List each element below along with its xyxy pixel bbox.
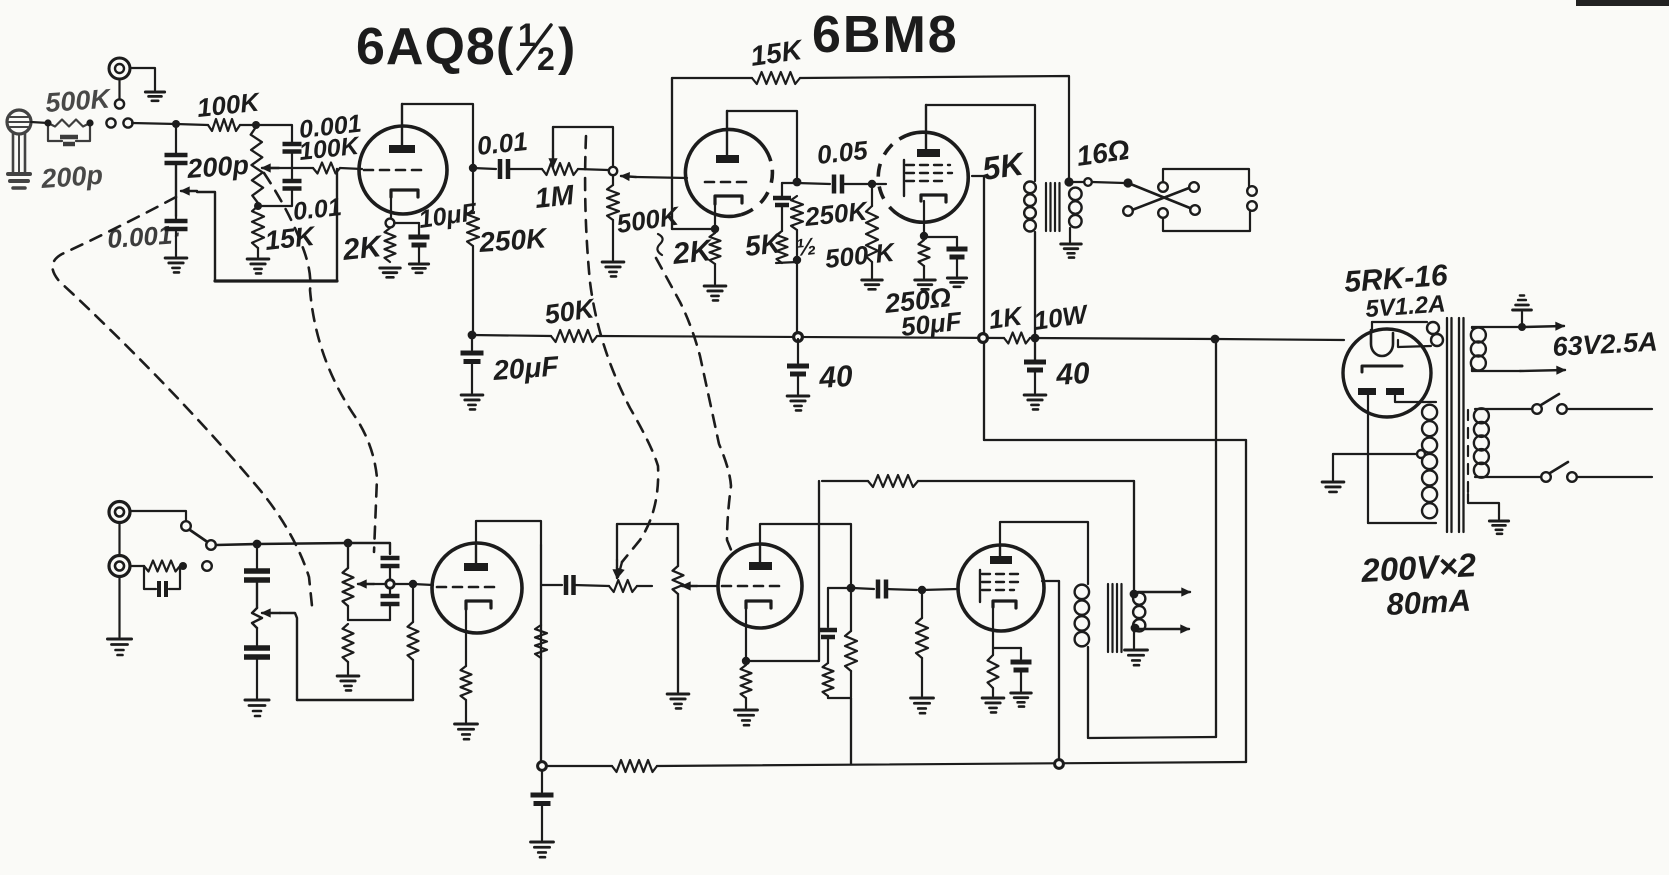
svg-text:15K: 15K (263, 221, 318, 256)
S2 jumper top (1163, 169, 1249, 186)
wiper arrow VR2 (262, 164, 279, 172)
RCA jack J3 (109, 502, 130, 523)
label 200p input (39, 160, 103, 194)
V5 bar (1362, 366, 1402, 372)
wire cap2a to diamond (389, 566, 391, 579)
label 500K pentode (823, 237, 897, 274)
wire B+ rail b (597, 336, 1004, 338)
svg-text:40: 40 (817, 360, 854, 395)
wire CT to ground (1333, 454, 1417, 480)
wire cap to 1M lower (574, 585, 609, 586)
svg-text:5K: 5K (743, 227, 784, 262)
wire 100K lower (412, 584, 414, 700)
PT core (1447, 318, 1464, 532)
wire grid V6 (413, 584, 433, 585)
label 5K OPT (980, 145, 1028, 187)
switch contact S1a (106, 118, 115, 127)
wire 250K to B+ rail (796, 230, 798, 333)
wire plate left down (1368, 395, 1436, 523)
ground 40uF-2 (1024, 395, 1046, 409)
B+ donut screen (979, 334, 988, 343)
V5 plate left (1358, 388, 1376, 395)
wire 5K branch top (782, 183, 797, 196)
label 0.05 (815, 135, 869, 170)
resistor 250K lower (535, 625, 547, 658)
ground CT (1322, 482, 1344, 492)
wire J1 to ground (130, 68, 155, 90)
wire 40-1 gnd (797, 374, 799, 394)
label 50uF (899, 306, 963, 342)
svg-text:2K: 2K (340, 230, 385, 267)
wire J1 to contact (118, 79, 120, 99)
wire cross link (348, 619, 390, 621)
V8 plate bracket (1000, 522, 1088, 584)
node D (254, 202, 262, 210)
switch contact S1c (115, 99, 124, 108)
resistor 100K (208, 119, 240, 131)
potentiometer 500K lower (673, 524, 684, 692)
label 15K (263, 221, 318, 256)
wire 6.3V bottom arrow (1472, 366, 1565, 374)
V3 grid3 (906, 180, 942, 182)
S2 contact D1 (1247, 186, 1257, 196)
svg-text:0.05: 0.05 (815, 135, 869, 170)
svg-text:1K: 1K (987, 300, 1026, 335)
wire 500K-3 (921, 590, 923, 696)
wire J3-J4 sleeve (118, 523, 120, 555)
wire OPT primary to rail (1034, 232, 1036, 360)
V7 plate bracket (760, 524, 851, 585)
OPT T2 secondary (1133, 593, 1145, 632)
label 250ohm (882, 282, 952, 319)
V8 grid3 (982, 589, 1014, 591)
resistor 500K input (parallel) (48, 120, 90, 127)
svg-text:200p: 200p (39, 160, 103, 194)
label 250K V2 (802, 195, 870, 232)
wire to V7 grid (697, 585, 717, 587)
PT primary winding (1474, 408, 1489, 477)
wire 500K to ground (612, 220, 614, 260)
PT HV winding (1422, 405, 1437, 519)
V8 screen wire (1042, 581, 1059, 762)
resistor 1K 10W (1004, 333, 1030, 344)
ground 50uF lower (1011, 693, 1031, 707)
wire wiper VR4 to grid (374, 583, 409, 585)
resistor 250ohm (919, 240, 930, 266)
OPT T1 primary (1024, 182, 1036, 232)
wiper arrow VR1 (181, 187, 197, 195)
V5 filament (1371, 330, 1393, 356)
wire 2K to ground (714, 264, 716, 284)
diamond junction lower (386, 580, 394, 588)
ground 20uF (461, 395, 483, 409)
6.3V junction (1518, 323, 1526, 331)
B+ donut V2 (794, 333, 803, 342)
switch S4 contact c (202, 561, 212, 571)
label 0.001 left (106, 219, 182, 254)
triode V2 6BM8 envelope (685, 129, 772, 216)
wire cathode to 50uF (928, 237, 957, 246)
wire wiper to 100K-2 (265, 167, 313, 169)
node A1 (44, 119, 51, 126)
label 10W (1032, 298, 1092, 335)
potentiometer 1M (542, 163, 578, 175)
wire 15K feedback left (672, 77, 752, 79)
ground chain1 (245, 700, 269, 716)
gang line 2 (264, 173, 377, 552)
resistor input lower (144, 561, 180, 572)
gang line 4 (656, 258, 734, 557)
capacitor 0.05 (834, 175, 842, 194)
wire node I right (348, 543, 390, 554)
RCA jack J4 (109, 556, 130, 577)
wire 10uF to ground (418, 245, 420, 262)
capacitor 20uF (461, 335, 484, 362)
B+ rail node V1 (468, 331, 477, 340)
capacitor 20uF lower (531, 770, 554, 804)
wire junction to 0.05 lower (853, 588, 874, 589)
V6 cathode (466, 601, 491, 666)
ground 15K (247, 259, 269, 273)
ground 250ohm (915, 280, 935, 289)
triode V1 6AQ8 envelope (359, 126, 447, 214)
wire V6 cath gnd (465, 700, 467, 722)
V8 grid2 (982, 581, 1022, 583)
junction V2 plate (793, 178, 802, 187)
label 500K V2 (615, 200, 683, 239)
wire J4 to 2M (130, 565, 144, 567)
label 200p tone (185, 150, 249, 184)
node G (868, 180, 876, 188)
capacitor lower-2b (381, 589, 400, 604)
wire plug to node (31, 122, 48, 123)
pentode V8 envelope (958, 545, 1044, 631)
wire secondary to ground (1069, 228, 1071, 242)
node lower screen (1055, 760, 1064, 769)
switch contact S1b (123, 118, 132, 127)
resistor 250ohm lower (988, 655, 999, 688)
resistor 50K lower (612, 760, 657, 772)
wire J4 to ground (118, 577, 120, 637)
wire sec to terminal (1073, 181, 1083, 183)
wire 250K V7 (850, 588, 852, 697)
S2 jumper bottom (1163, 211, 1250, 231)
wire 250K to B+ (472, 168, 474, 334)
V3 cathode (921, 195, 946, 233)
wire node C right (256, 125, 292, 142)
1M lower wiper (613, 524, 621, 578)
ground 2K V7 (735, 710, 758, 725)
label 5RK-16 (1343, 259, 1449, 299)
V7 cathode (746, 601, 771, 657)
rectifier V5 5RK-16 envelope (1343, 329, 1431, 417)
switch S2 common dot (1123, 178, 1132, 187)
V3 plate (917, 105, 940, 157)
potentiometer VR3 (252, 580, 262, 628)
wire 250K V7 to B+ (850, 698, 852, 764)
ground 40uF-1 (787, 396, 809, 410)
svg-text:2: 2 (537, 41, 555, 77)
scan artifact bar (1576, 0, 1669, 6)
title 6BM8 (812, 6, 959, 64)
V2 plate (716, 111, 739, 163)
ground V6 cathode (455, 724, 478, 739)
wire V6 plate chain (540, 545, 542, 766)
PT 5V winding (1372, 322, 1443, 347)
S2 contact C1 (1158, 182, 1168, 192)
label 1M (533, 179, 576, 214)
cap loop lower (144, 566, 180, 597)
label 2K V2 (670, 234, 715, 271)
1M wiper arrow (549, 127, 557, 167)
wire T2 primary bottom (1087, 647, 1089, 738)
wire 15K to ground (257, 248, 259, 257)
potentiometer 1M lower (609, 580, 637, 592)
T2 secondary top node (1130, 590, 1139, 599)
node B (172, 120, 180, 128)
wire 0.01 to 1M (510, 168, 542, 170)
OPT T1 core (1046, 183, 1060, 231)
ground 500K-3 (911, 698, 934, 713)
capacitor 200p input loop (48, 123, 90, 144)
V7 cathode node (742, 657, 750, 665)
wire 5K branch lower (828, 588, 849, 627)
wire B+ rail a (472, 335, 551, 336)
ground 20uF lower (531, 842, 554, 857)
node H (253, 540, 262, 549)
OPT T1 secondary (1069, 188, 1082, 228)
ground OPT T2 (1125, 650, 1148, 665)
junction V7 plate (847, 584, 856, 593)
resistor 500K grid V2 (607, 175, 619, 220)
label 500K input (44, 83, 113, 118)
wire NFB vertical (671, 78, 673, 229)
wire to ground (175, 230, 177, 256)
wire chain1 gnd (256, 657, 258, 698)
wire 2K V7 gnd (745, 698, 747, 708)
wire to node B (132, 123, 176, 124)
wire AC top (1480, 408, 1532, 410)
V2 cathode node (711, 225, 719, 233)
wire 50uF-2 gnd (1020, 670, 1022, 691)
S2 contact C2 (1158, 208, 1168, 218)
OPT T2 primary (1075, 585, 1089, 647)
wire 500K-p (871, 184, 873, 278)
label 0.001 (298, 110, 363, 144)
capacitor lower-1a (244, 544, 270, 580)
B+ node lower (538, 762, 547, 771)
ground 2K V2 (704, 286, 726, 300)
wire right inner drop (1215, 339, 1217, 737)
label 20uF (491, 350, 560, 386)
wire 20uF gnd (471, 361, 473, 393)
wiper arrow 500K lower (682, 582, 697, 590)
wire 100K-2 to grid (340, 168, 362, 169)
label 10uF (417, 198, 479, 234)
B+ node PSU (1211, 335, 1220, 344)
svg-text:0.01: 0.01 (475, 126, 528, 161)
S2 contact D2 (1247, 201, 1257, 211)
svg-text:500K: 500K (44, 83, 113, 118)
wire 15K feedback right (800, 76, 1069, 178)
PT shield (1468, 410, 1499, 519)
wire lower rail b (657, 762, 1246, 766)
wire inner bottom (1089, 737, 1216, 738)
V6 grid (437, 586, 500, 589)
node C (252, 121, 260, 129)
resistor 500K-3 (916, 618, 928, 658)
wire 20uF-2 gnd (541, 803, 543, 840)
label 50K (543, 293, 599, 330)
svg-text:1M: 1M (533, 179, 576, 214)
label 100K (195, 86, 262, 123)
wire plate right (1395, 395, 1436, 402)
resistor V6 cathode (461, 666, 472, 700)
switch S3a (1532, 394, 1567, 414)
pentode V3 envelope (878, 132, 968, 222)
V8 grid rail (979, 570, 981, 602)
node F (793, 256, 801, 264)
wire 250ohm gnd (923, 266, 925, 278)
label 40uF-2 (1054, 357, 1091, 392)
capacitor 0.01 coupling V1 (500, 159, 508, 179)
capacitor 10uF (409, 237, 430, 245)
S2 contact B1 (1123, 206, 1133, 216)
potentiometer VR2 15K-tone (251, 127, 263, 203)
wire plate junction to 0.05 (797, 183, 830, 184)
V8 grid1 (982, 573, 1020, 575)
V6 plate (464, 543, 488, 571)
capacitor coupling lower (566, 575, 574, 595)
OPT T2 core (1108, 584, 1122, 652)
node E plate (469, 164, 477, 172)
wire AC bottom out (1577, 476, 1652, 478)
terminal 16ohm a (1084, 178, 1092, 186)
label 5K V2 (743, 227, 784, 262)
wire B+ rail c (1030, 338, 1216, 339)
svg-text:0.001·: 0.001· (106, 219, 182, 254)
node J4a (179, 562, 187, 570)
wire 0.05 lower to grid node (886, 589, 917, 590)
capacitor 0.001 lower-left (165, 216, 188, 229)
gang line 3 (585, 136, 658, 577)
wire 50uF gnd (956, 257, 958, 276)
wire 5K join lower (828, 696, 851, 698)
capacitor 0.001 coupling (283, 144, 302, 152)
resistor 100K grid (313, 163, 340, 174)
ground OPT T1 (1061, 244, 1081, 258)
ground 10uF (409, 264, 428, 273)
wire AC bottom (1480, 476, 1541, 478)
V8 cathode (993, 601, 1016, 655)
wire S4 to node H (216, 544, 257, 545)
resistor 2K V2 (710, 233, 721, 264)
capacitor 0.05 lower (878, 580, 886, 599)
gang line 1 (52, 197, 312, 606)
node K grid lower (409, 580, 417, 588)
PT 6.3V winding (1471, 327, 1520, 371)
node A2 (86, 119, 93, 126)
capacitor 5K branch (773, 198, 791, 205)
label 15K NFB (749, 34, 806, 72)
wire node B down (175, 124, 177, 153)
ground 2K (380, 268, 400, 277)
svg-text:2K: 2K (670, 234, 715, 271)
capacitor lower-1b (244, 628, 270, 657)
T2 tap node (1131, 624, 1140, 633)
B+ node OPT (1031, 334, 1040, 343)
inverted ground 6.3V (1513, 296, 1532, 311)
wire 100K to node C (240, 124, 256, 126)
svg-text:6BM8: 6BM8 (812, 6, 959, 64)
ground 500K lower (667, 694, 689, 708)
OPT secondary top node (1064, 177, 1073, 186)
wire 250-2 gnd (992, 688, 994, 696)
label 250K V1 (477, 222, 549, 258)
resistor 100K lower (408, 622, 419, 660)
ground VR1 (165, 258, 187, 272)
triode V7 envelope (718, 544, 802, 628)
wire cap to cap (291, 152, 293, 179)
V1 plate (389, 104, 415, 153)
wire node G to pentode grid (872, 183, 886, 185)
svg-text:0.01: 0.01 (292, 193, 343, 226)
V3 plate bracket (926, 105, 1035, 181)
switch S4 contact a (181, 521, 191, 531)
svg-text:63V2.5A: 63V2.5A (1552, 327, 1659, 362)
resistor 2K V7 (741, 665, 752, 698)
resistor 15K NFB (752, 72, 800, 84)
wire cathode to 50uF lower (993, 648, 1021, 659)
svg-text:5K: 5K (980, 145, 1028, 187)
wire node H to node I (257, 543, 348, 544)
V1 cathode (391, 190, 418, 219)
wire lower rail a (546, 765, 612, 767)
resistor 15K (252, 206, 264, 248)
wire 40-2 gnd (1034, 370, 1036, 393)
wire 1M lower right (637, 585, 652, 587)
V1 cathode terminal (386, 219, 395, 228)
ground 250ohm lower (982, 698, 1004, 712)
V1 grid (364, 169, 427, 172)
capacitor lower-2a (381, 558, 400, 566)
label 200Vx2 (1359, 546, 1477, 589)
S2 blade B (1132, 188, 1189, 210)
svg-text:): ) (558, 18, 575, 76)
capacitor 200p tone (165, 155, 188, 163)
wire 6.3V gnd stem (1521, 312, 1523, 325)
label 5V1.2A (1365, 290, 1447, 323)
ground jacks (108, 639, 132, 655)
wiper arrow VR4 (358, 580, 374, 588)
potentiometer VR4 (343, 543, 354, 606)
S2 contact A2 (1190, 205, 1200, 215)
wire VR4 bottom (347, 606, 349, 620)
ground 50uF (947, 278, 966, 287)
resistor 2K V1 cathode (385, 228, 396, 262)
1M wiper box (553, 127, 613, 166)
wire 1M to node (578, 169, 608, 170)
svg-text:200p: 200p (185, 150, 249, 184)
S2 blade A (1128, 183, 1190, 208)
1M lower box (617, 523, 678, 525)
wire arrow to V2 grid (636, 177, 687, 178)
wire node B to 100K (176, 124, 208, 125)
capacitor 5K branch lower (819, 630, 837, 637)
wire 0.05 to node G (844, 183, 868, 185)
label 80mA (1386, 583, 1472, 622)
wire NFB lower junction (746, 660, 819, 662)
